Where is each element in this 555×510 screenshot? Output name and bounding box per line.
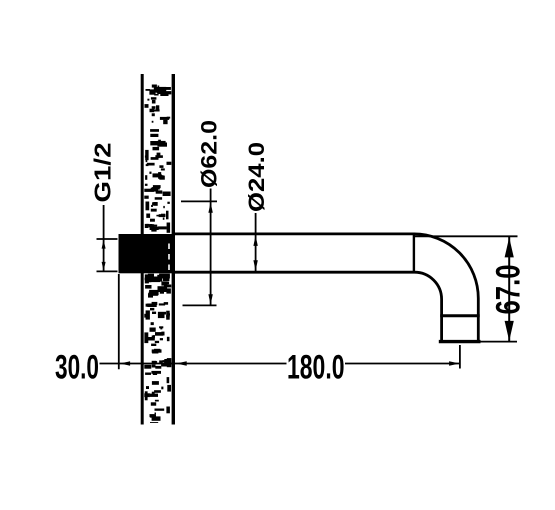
svg-text:Ø24.0: Ø24.0 <box>244 142 269 212</box>
dim D24 arrow down <box>253 260 257 271</box>
svg-text:67.0: 67.0 <box>490 265 528 315</box>
dim G1/2 bottom tick <box>97 270 118 272</box>
dim 30 arrow right <box>164 361 175 365</box>
dim D62 line <box>210 189 212 306</box>
dim D62 arrow up <box>208 202 212 213</box>
wall hatch speckle <box>144 85 171 424</box>
joint line at end of straight tube <box>413 233 415 274</box>
dim 180 ext line (outlet centre) <box>459 345 461 369</box>
dim D62 upper ext line <box>181 200 217 202</box>
dim D24 line <box>255 213 257 271</box>
spout bottom edge + inner bend curve + outlet left edge <box>175 272 442 341</box>
dim D62 arrow down <box>208 294 212 305</box>
dim 67 line <box>508 237 510 341</box>
dim 30/180 line right part <box>345 363 460 365</box>
dim 30/180 line left part <box>100 363 287 365</box>
dim G1/2 top tick <box>97 238 118 240</box>
wall right line <box>172 74 175 425</box>
dim D62 lower ext line <box>183 304 217 306</box>
dim G1/2 arrow up <box>102 240 106 249</box>
dim 30 ext line (flange left face) <box>118 274 120 369</box>
outlet bottom edge <box>439 340 481 343</box>
svg-text:Ø62.0: Ø62.0 <box>197 120 222 188</box>
dim 180 arrow left <box>176 361 187 365</box>
spout top edge + outer bend curve + outlet right edge <box>175 234 478 341</box>
aerator joint line on outlet <box>440 314 480 317</box>
dim 67 bottom ext line <box>481 341 518 343</box>
svg-text:180.0: 180.0 <box>287 349 345 387</box>
dim 67 top ext line <box>414 235 518 237</box>
wall left line <box>141 74 144 425</box>
dim D24 arrow up <box>253 235 257 246</box>
svg-text:G1/2: G1/2 <box>90 143 116 203</box>
mounting flange (black) <box>119 234 176 273</box>
dim 180 arrow right <box>449 361 460 365</box>
dim 67 fat arrow up <box>505 237 514 257</box>
dim G1/2 line <box>103 205 105 271</box>
dim 67 fat arrow down <box>505 321 514 341</box>
dim 30 arrow left <box>120 361 131 365</box>
dim G1/2 arrow down <box>102 262 106 271</box>
svg-text:30.0: 30.0 <box>55 349 99 387</box>
hidden wall face line (white dashed) inside flange <box>168 244 170 272</box>
